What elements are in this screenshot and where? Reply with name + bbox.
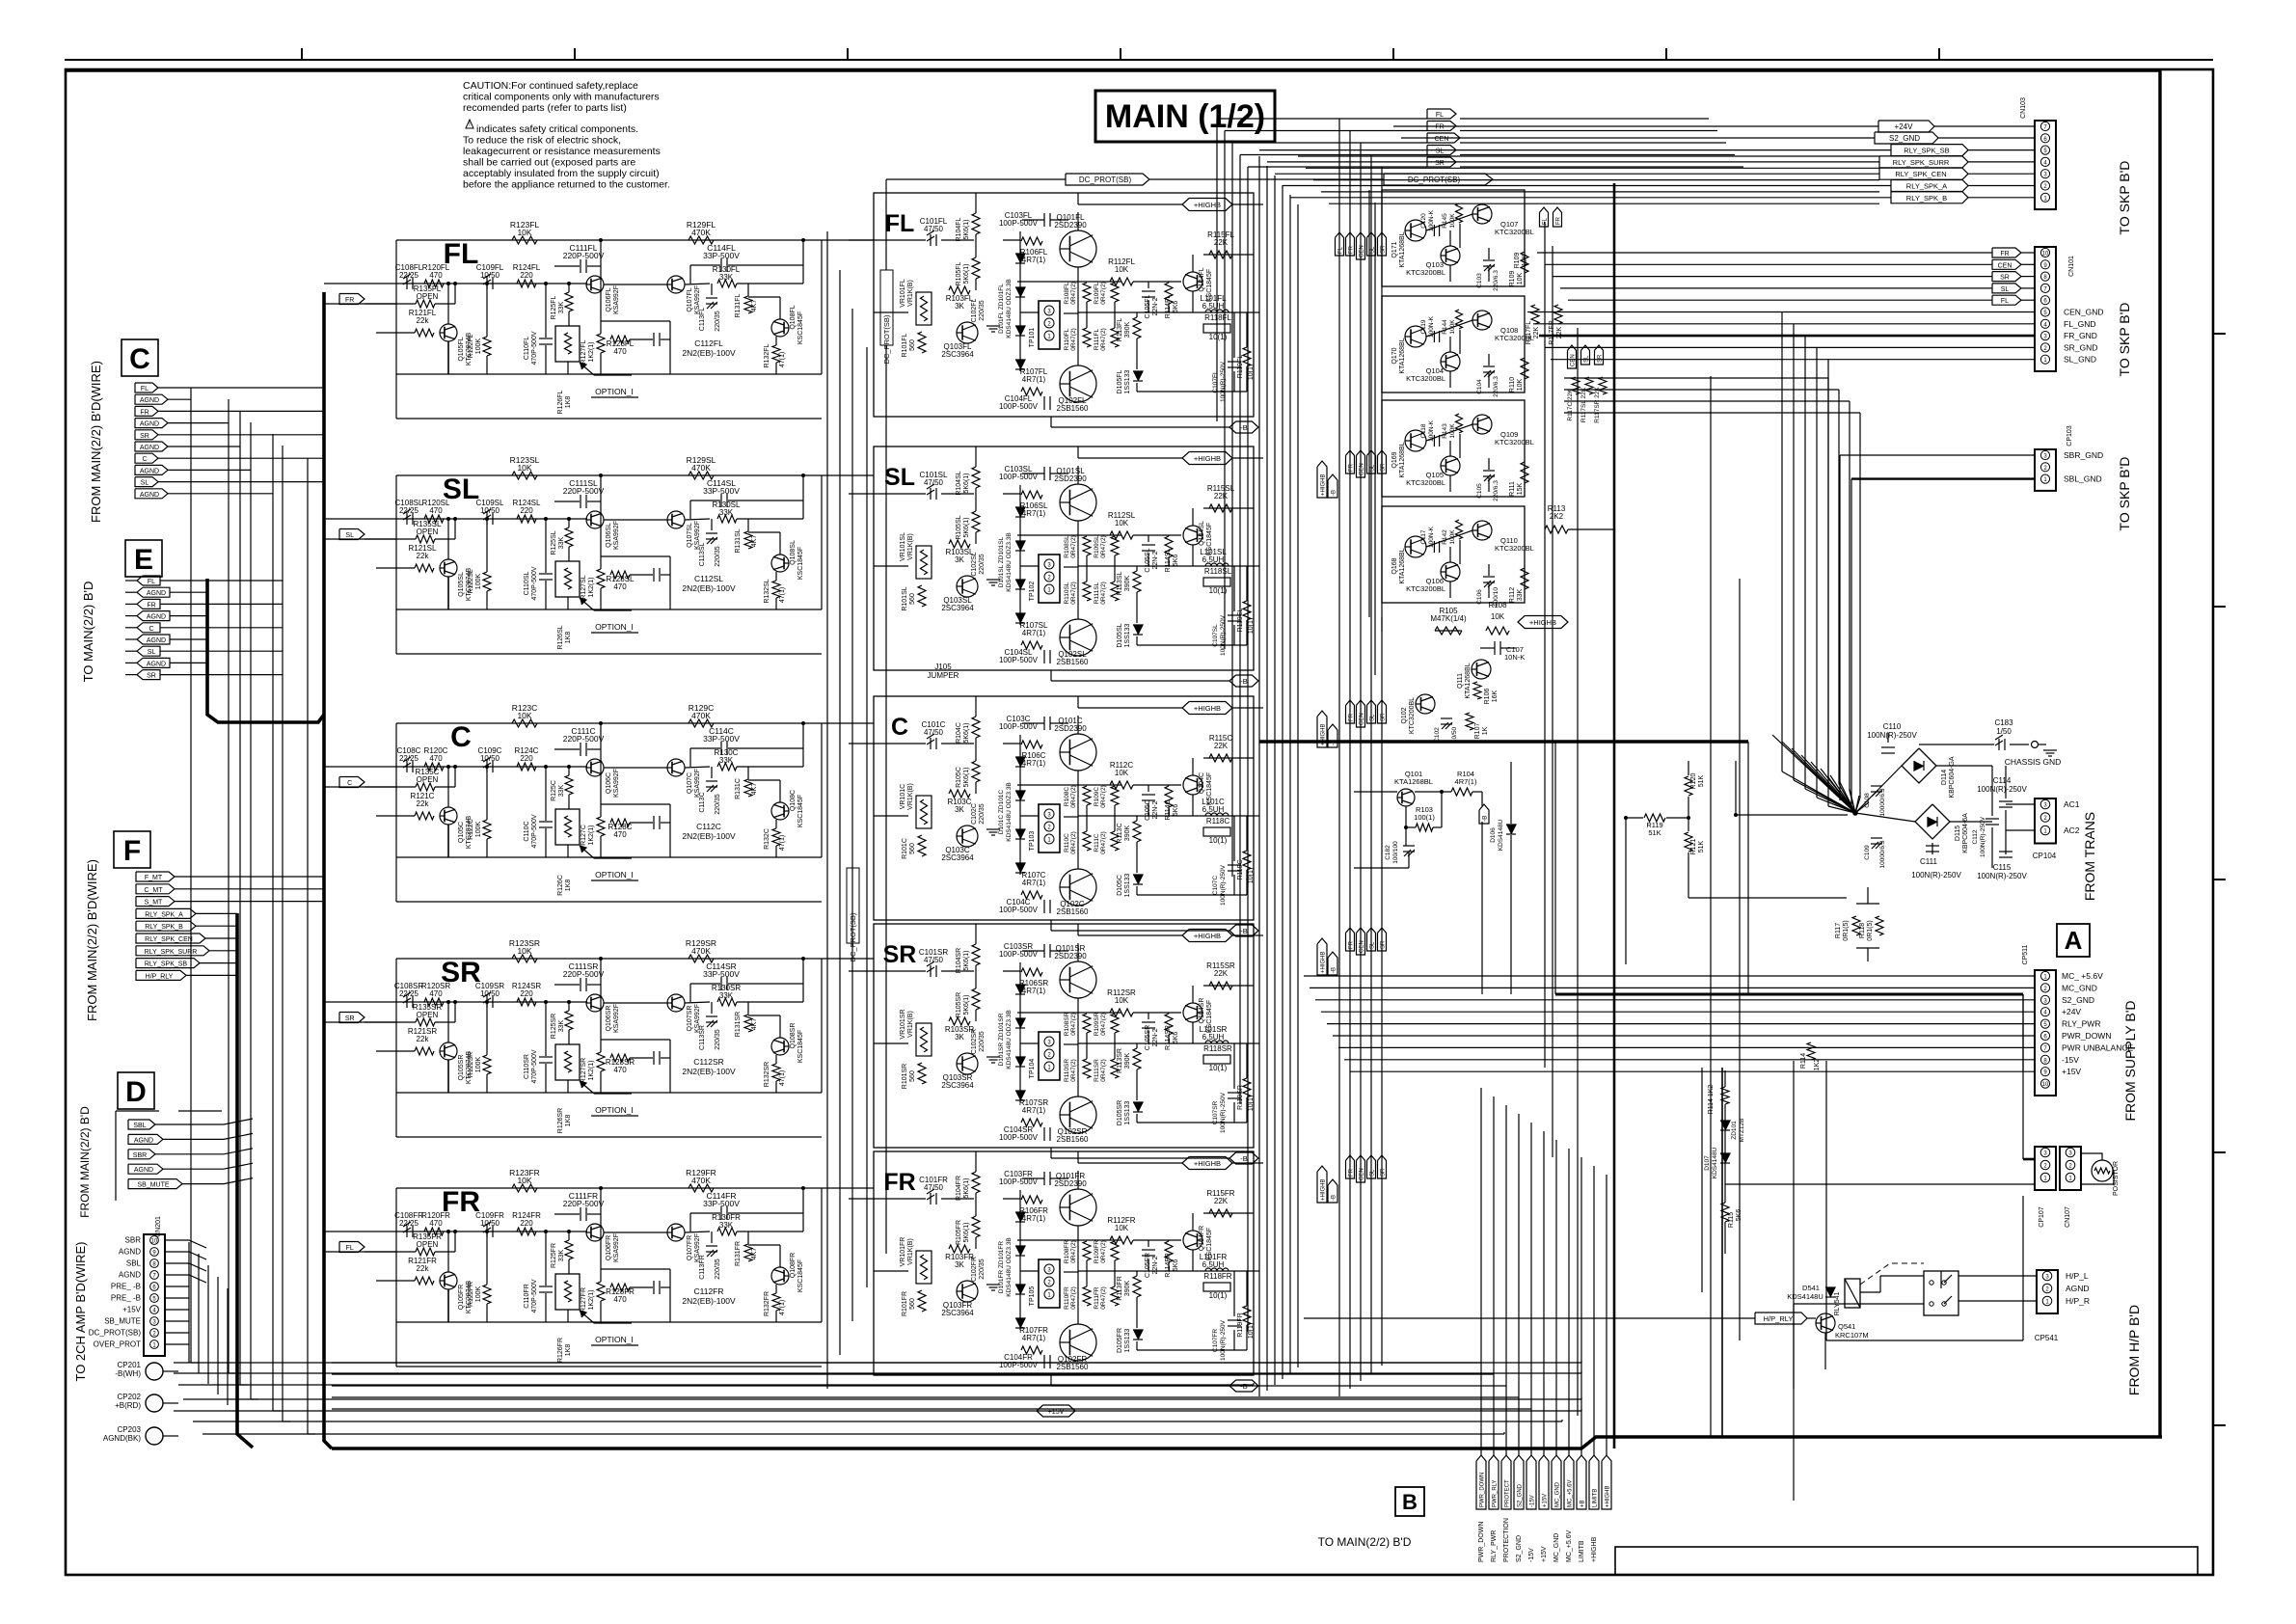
svg-text:220/35: 220/35 xyxy=(979,300,986,321)
svg-text:C113FR: C113FR xyxy=(699,1255,706,1280)
svg-text:AGND(BK): AGND(BK) xyxy=(103,1434,141,1443)
svg-text:C110C: C110C xyxy=(524,821,530,841)
svg-text:470: 470 xyxy=(429,271,443,280)
svg-text:100K: 100K xyxy=(475,822,482,838)
svg-text:0R47(2): 0R47(2) xyxy=(1100,1059,1107,1081)
svg-text:+15V: +15V xyxy=(1541,1546,1548,1562)
svg-text:AC1: AC1 xyxy=(2064,799,2080,809)
connector CP103 xyxy=(2035,449,2056,491)
svg-text:22N-2: 22N-2 xyxy=(1152,800,1159,819)
svg-text:C119: C119 xyxy=(1420,319,1427,334)
svg-text:100N(R)-250V: 100N(R)-250V xyxy=(1220,864,1227,906)
ruler tick top 2 xyxy=(574,48,576,60)
array bus verticals xyxy=(1368,190,1370,617)
terminal CP203 AGND(BK) xyxy=(146,1427,163,1445)
svg-text:-B: -B xyxy=(1332,967,1337,973)
wire left rail SR xyxy=(395,959,397,1093)
svg-text:Q541: Q541 xyxy=(1838,1322,1855,1331)
svg-text:H/P_RLY: H/P_RLY xyxy=(146,973,174,980)
svg-text:5K6(1): 5K6(1) xyxy=(963,263,970,284)
svg-text:FR: FR xyxy=(1349,1168,1355,1177)
transistor Q106FR KSA992F xyxy=(586,1224,604,1241)
transistor Q103FR 2SC3964 xyxy=(957,1281,978,1302)
capacitor C113C 220/35 xyxy=(706,780,717,782)
svg-text:OPTION_I: OPTION_I xyxy=(595,1335,634,1344)
svg-text:3: 3 xyxy=(2043,803,2047,809)
transistor Q168 KTA1268BL xyxy=(1405,536,1426,557)
heavy stub CP107 xyxy=(2023,1158,2035,1161)
svg-text:PWR_DOWN: PWR_DOWN xyxy=(1478,1522,1485,1562)
svg-text:560: 560 xyxy=(909,1070,916,1082)
svg-text:1K2(1): 1K2(1) xyxy=(588,577,595,597)
svg-text:KSC1845F: KSC1845F xyxy=(797,1030,804,1063)
svg-text:2N2(EB)-100V: 2N2(EB)-100V xyxy=(682,1296,736,1306)
svg-text:0R47(2): 0R47(2) xyxy=(1070,282,1077,304)
svg-text:KTC3200BL: KTC3200BL xyxy=(1495,544,1534,553)
wire CP511 RLY_PWR xyxy=(1327,1023,2035,1025)
svg-text:C182: C182 xyxy=(1385,845,1391,860)
svg-text:R107: R107 xyxy=(1474,723,1481,740)
svg-text:PRE_ -B: PRE_ -B xyxy=(111,1294,141,1303)
connector CP107 xyxy=(2035,1147,2056,1190)
wires to CP541 xyxy=(1958,1275,2037,1277)
wire FR q106-q107 xyxy=(604,1232,667,1233)
vertical tag row near FR block xyxy=(1346,1155,1355,1178)
transistor Q111 KTA1268BL xyxy=(1472,660,1491,679)
transistor Q107FL KSA992F xyxy=(667,276,685,293)
svg-text:FR: FR xyxy=(1349,940,1355,949)
svg-text:4R7(1): 4R7(1) xyxy=(1022,759,1046,768)
capacitor C129SL xyxy=(653,568,655,582)
transistor Q170 KTA1268BL xyxy=(1405,326,1426,347)
transistor Q169 KTA1268BL xyxy=(1405,430,1426,451)
svg-text:CEN: CEN xyxy=(1360,245,1365,257)
svg-text:CP541: CP541 xyxy=(2035,1334,2059,1342)
svg-text:AGND: AGND xyxy=(147,590,166,597)
svg-text:560: 560 xyxy=(909,593,916,605)
svg-text:FR_GND: FR_GND xyxy=(2064,331,2097,340)
svg-text:R125C: R125C xyxy=(551,780,557,801)
svg-text:F_MT: F_MT xyxy=(145,875,163,881)
svg-text:SR: SR xyxy=(140,433,149,440)
transistor Q105 KTC3200BL xyxy=(1441,456,1460,475)
wires to CP103 xyxy=(1840,454,2035,456)
svg-text:10K: 10K xyxy=(1115,1224,1129,1232)
svg-text:SL: SL xyxy=(1584,355,1590,363)
svg-text:Q105FL: Q105FL xyxy=(458,337,465,361)
ruler tick top 4 xyxy=(1120,48,1121,60)
svg-text:22k: 22k xyxy=(417,552,430,560)
svg-text:2: 2 xyxy=(1047,1053,1051,1059)
wires in group Q169 xyxy=(1426,424,1472,441)
svg-text:2SD2390: 2SD2390 xyxy=(1054,474,1087,483)
svg-text:VR1K(B): VR1K(B) xyxy=(907,280,914,307)
terminal CP202 +B(RD) xyxy=(146,1394,163,1412)
svg-text:470P-500V: 470P-500V xyxy=(531,1049,538,1083)
svg-text:R121: R121 xyxy=(1690,839,1697,855)
svg-text:4R7(1): 4R7(1) xyxy=(1022,1334,1046,1342)
svg-text:KSC1845F: KSC1845F xyxy=(797,1259,804,1292)
amp block outline FL xyxy=(874,193,1254,417)
svg-text:R115: R115 xyxy=(1728,1212,1735,1228)
svg-text:FL: FL xyxy=(885,210,915,237)
net tag +HIGHB C xyxy=(1182,702,1232,715)
svg-text:R118FL: R118FL xyxy=(1204,313,1231,322)
svg-text:R131SR: R131SR xyxy=(735,1012,742,1037)
svg-text:Q170: Q170 xyxy=(1391,347,1398,364)
svg-text:220: 220 xyxy=(520,506,533,515)
ruler tick top 6 xyxy=(1665,48,1667,60)
svg-text:Q108FR: Q108FR xyxy=(790,1253,797,1278)
transistor Q103FL 2SC3964 xyxy=(957,322,978,343)
svg-text:CN101: CN101 xyxy=(2068,256,2075,277)
svg-text:C113SL: C113SL xyxy=(699,543,706,567)
svg-text:PWR_RLY: PWR_RLY xyxy=(1493,1479,1499,1507)
channel source tag FL xyxy=(339,1242,365,1253)
svg-text:+15V: +15V xyxy=(1048,1409,1065,1416)
svg-text:RLY_SPK_SURR: RLY_SPK_SURR xyxy=(145,949,198,956)
svg-text:D105FL: D105FL xyxy=(1117,369,1123,393)
svg-text:VR101FL: VR101FL xyxy=(900,279,906,308)
svg-text:R142: R142 xyxy=(1442,529,1448,545)
svg-text:OPEN: OPEN xyxy=(417,292,439,301)
capacitor C129SR xyxy=(653,1051,655,1065)
svg-text:2SB1560: 2SB1560 xyxy=(1057,1363,1089,1371)
svg-text:RLY_SPK_SURR: RLY_SPK_SURR xyxy=(1893,158,1950,167)
wire SR q106-q107 xyxy=(604,1002,667,1004)
svg-text:R131FR: R131FR xyxy=(735,1241,742,1266)
svg-text:1SS133: 1SS133 xyxy=(1124,873,1131,897)
svg-text:R111FR: R111FR xyxy=(1094,1286,1100,1310)
wire C internal verticals xyxy=(447,767,449,807)
svg-text:PROTECT: PROTECT xyxy=(1505,1479,1511,1507)
svg-text:33K: 33K xyxy=(558,301,565,313)
svg-text:SR: SR xyxy=(883,941,917,968)
svg-text:R127SR: R127SR xyxy=(581,1058,587,1083)
svg-text:SR: SR xyxy=(147,673,156,680)
svg-text:R143: R143 xyxy=(1442,423,1448,439)
svg-text:10(1): 10(1) xyxy=(1248,365,1255,380)
svg-text:AGND: AGND xyxy=(119,1248,141,1257)
svg-text:KTA1268BL: KTA1268BL xyxy=(1465,663,1472,698)
wire input row C xyxy=(324,766,587,768)
connector tag RLY_SPK_A (group F) xyxy=(136,908,196,918)
svg-text:CP201: CP201 xyxy=(118,1361,142,1369)
svg-text:10(1): 10(1) xyxy=(1248,868,1255,883)
bridge diode D115 KBPC604-GA xyxy=(1915,804,1950,839)
connector tag FL (group E pin 1) xyxy=(137,576,160,585)
svg-text:4K7: 4K7 xyxy=(751,535,758,548)
svg-text:10: 10 xyxy=(151,1239,158,1245)
svg-text:3: 3 xyxy=(1047,310,1051,315)
wire from tag PROTECT xyxy=(1505,1105,1507,1455)
svg-text:+HIGHB: +HIGHB xyxy=(1321,474,1327,496)
option arrow OPTION_I SL xyxy=(580,598,594,610)
svg-text:6: 6 xyxy=(2043,137,2047,143)
svg-text:C117: C117 xyxy=(1420,529,1427,544)
svg-text:5K6: 5K6 xyxy=(1173,804,1179,817)
vertical tag -B near SL block xyxy=(1328,474,1337,498)
terminal CP201 -B(WH) xyxy=(146,1363,163,1380)
svg-text:TO SKP B'D: TO SKP B'D xyxy=(2117,457,2132,531)
test point TP101 xyxy=(1039,301,1060,349)
connector tag AGND (group D) xyxy=(128,1164,163,1174)
svg-text:-B: -B xyxy=(1332,490,1337,496)
svg-text:C102SR: C102SR xyxy=(971,1029,978,1054)
svg-text:VR1K(B): VR1K(B) xyxy=(907,1238,914,1265)
svg-text:R126FR: R126FR xyxy=(557,1338,564,1363)
wire C q106-q107 xyxy=(604,767,667,769)
wire left rail FL xyxy=(395,240,397,374)
group label C xyxy=(122,339,158,376)
svg-text:FR: FR xyxy=(345,297,354,304)
svg-text:47(1): 47(1) xyxy=(779,587,786,603)
svg-text:2: 2 xyxy=(1047,826,1051,831)
svg-text:R108FR: R108FR xyxy=(1064,1240,1070,1264)
svg-text:100N(R)-250V: 100N(R)-250V xyxy=(1977,785,2027,794)
svg-text:Q106C: Q106C xyxy=(606,772,612,794)
svg-text:47(1): 47(1) xyxy=(779,352,786,367)
svg-text:0R1(5): 0R1(5) xyxy=(1867,920,1874,940)
transistor Q107FR KSA992F xyxy=(667,1224,685,1241)
capacitor C102 10/50 xyxy=(1441,717,1452,719)
wire left rail SL xyxy=(395,475,397,609)
connector CP541 xyxy=(2037,1270,2058,1313)
svg-text:OPTION_I: OPTION_I xyxy=(595,387,634,396)
electrolytic capacitor C104 220/6.3 xyxy=(1483,365,1495,367)
net tag -B SR xyxy=(1229,1152,1258,1164)
svg-text:FR: FR xyxy=(1556,216,1562,225)
svg-text:C183: C183 xyxy=(1994,718,2013,727)
svg-text:4R7(1): 4R7(1) xyxy=(1022,375,1046,384)
heavy RLY bus vertical x=246 xyxy=(237,913,253,1448)
resistor R120 51K xyxy=(1685,776,1692,796)
svg-text:9: 9 xyxy=(2043,1070,2047,1076)
wire long horizontals lower mid xyxy=(332,1362,1481,1364)
svg-text:AGND: AGND xyxy=(147,614,166,621)
svg-text:1: 1 xyxy=(2045,1300,2049,1306)
svg-text:5K6(1): 5K6(1) xyxy=(963,517,970,537)
svg-text:100K: 100K xyxy=(475,1057,482,1073)
transistor Q105C KTC2874B xyxy=(440,807,457,825)
svg-text:R108FL: R108FL xyxy=(1064,282,1070,305)
driver group Q170 block xyxy=(1382,296,1525,392)
svg-text:VR1K(B): VR1K(B) xyxy=(907,1011,914,1038)
hex tag FL at CN101 xyxy=(1992,295,2021,305)
svg-text:1: 1 xyxy=(2043,1177,2047,1182)
transistor Q107C KSA992F xyxy=(667,759,685,776)
svg-text:3: 3 xyxy=(2043,998,2047,1004)
svg-text:TP102: TP102 xyxy=(1029,582,1036,602)
svg-text:R117SR 22K: R117SR 22K xyxy=(1594,387,1601,423)
svg-text:FL: FL xyxy=(148,579,155,585)
wire from tag PWR_DOWN xyxy=(1480,1088,1482,1455)
svg-text:220/35: 220/35 xyxy=(979,1259,986,1280)
svg-text:AC2: AC2 xyxy=(2064,826,2080,835)
svg-text:KTA1268BL: KTA1268BL xyxy=(1399,231,1406,267)
svg-text:SB_MUTE: SB_MUTE xyxy=(104,1317,141,1326)
svg-text:220/6.3: 220/6.3 xyxy=(1493,376,1499,397)
svg-text:SBR: SBR xyxy=(125,1236,142,1245)
svg-text:560: 560 xyxy=(909,843,916,854)
connector tag AGND (group E pin 4) xyxy=(137,611,170,621)
connector tag SR (group C pin 5) xyxy=(135,430,158,440)
svg-text:C: C xyxy=(450,721,472,753)
wire input row SL xyxy=(324,518,587,520)
svg-text:FR: FR xyxy=(2000,251,2009,257)
svg-text:C112SL: C112SL xyxy=(694,574,723,583)
svg-text:Q107FL: Q107FL xyxy=(687,287,693,311)
amp block outline SL xyxy=(874,447,1254,670)
net tag +HIGHB SL xyxy=(1182,452,1232,465)
svg-text:+HIGHB: +HIGHB xyxy=(1194,932,1221,940)
svg-text:47/50: 47/50 xyxy=(924,728,944,737)
svg-text:KDS4148U: KDS4148U xyxy=(1498,819,1504,851)
svg-text:FR: FR xyxy=(1349,463,1355,472)
svg-text:1: 1 xyxy=(2043,358,2047,364)
connector tag AGND (group D) xyxy=(128,1134,163,1144)
svg-text:+24V: +24V xyxy=(2062,1007,2081,1016)
svg-text:+HIGHB: +HIGHB xyxy=(1321,1178,1327,1201)
terminal wires CP20x xyxy=(163,1370,178,1372)
svg-text:AGND: AGND xyxy=(140,445,159,451)
svg-text:R113FL: R113FL xyxy=(1117,318,1123,341)
svg-text:KSA992F: KSA992F xyxy=(613,285,620,314)
svg-text:220/6.3: 220/6.3 xyxy=(1493,270,1499,291)
svg-text:2SB1560: 2SB1560 xyxy=(1057,658,1089,666)
svg-text:B: B xyxy=(1402,1490,1418,1514)
svg-text:0R47(2): 0R47(2) xyxy=(1070,582,1077,604)
svg-text:C: C xyxy=(149,626,153,633)
svg-text:0R47(2): 0R47(2) xyxy=(1070,1240,1077,1262)
svg-text:Q105SR: Q105SR xyxy=(458,1055,465,1081)
capacitor C129C xyxy=(653,816,655,829)
svg-text:Q106SR: Q106SR xyxy=(606,1006,612,1032)
test point TP105 xyxy=(1039,1259,1060,1308)
svg-text:Q106FL: Q106FL xyxy=(606,287,612,311)
svg-text:100P-500V: 100P-500V xyxy=(999,1361,1039,1369)
svg-text:R118SL: R118SL xyxy=(1204,567,1232,576)
net tag LIMITB (to main 2/2) xyxy=(1589,1455,1599,1509)
svg-text:CP202: CP202 xyxy=(118,1393,142,1401)
wire to CP107 xyxy=(1725,1183,2035,1185)
wires inside amp block SL xyxy=(975,447,977,467)
svg-text:RLY_SPK_CEN: RLY_SPK_CEN xyxy=(1895,170,1946,178)
svg-text:R104FL: R104FL xyxy=(956,217,962,241)
connector tag SBL (group D) xyxy=(128,1120,155,1129)
svg-text:R101FR: R101FR xyxy=(902,1291,908,1316)
svg-text:10: 10 xyxy=(2042,1082,2049,1088)
svg-text:+HIGHB: +HIGHB xyxy=(1606,1485,1611,1507)
CN201 wire drops xyxy=(188,1242,190,1363)
rotated net label DC_PROT(SB) lower xyxy=(847,868,859,943)
svg-text:CEN: CEN xyxy=(1998,262,2012,269)
wire CP511 S2_GND xyxy=(1315,999,2035,1001)
svg-text:3: 3 xyxy=(1047,813,1051,819)
net tag +HIGHB SR xyxy=(1182,930,1232,942)
svg-text:+HIGHB: +HIGHB xyxy=(1194,1159,1221,1168)
svg-text:R132SR: R132SR xyxy=(764,1062,770,1087)
net tag PROTECT (to main 2/2) xyxy=(1501,1455,1511,1509)
svg-text:TP104: TP104 xyxy=(1029,1059,1036,1079)
driver group Q169 block xyxy=(1382,400,1525,497)
svg-text:-15V: -15V xyxy=(1530,1495,1536,1507)
net tag PWR_RLY (to main 2/2) xyxy=(1489,1455,1499,1509)
wire SR_GND xyxy=(1545,346,2035,348)
svg-text:47/50: 47/50 xyxy=(924,478,944,487)
svg-text:recomended parts (refer to par: recomended parts (refer to parts list) xyxy=(463,102,627,114)
svg-text:C114: C114 xyxy=(1993,776,2012,785)
hex tag FR at CN101 xyxy=(1992,248,2021,257)
svg-text:220: 220 xyxy=(520,271,533,280)
svg-text:VR1K(B): VR1K(B) xyxy=(907,533,914,560)
svg-text:2: 2 xyxy=(2043,816,2047,822)
wires in group Q168 xyxy=(1426,530,1472,547)
svg-text:SB_MUTE: SB_MUTE xyxy=(137,1182,169,1189)
svg-text:SR: SR xyxy=(1381,940,1387,949)
transistor Q104C KSC1845F xyxy=(1183,775,1202,795)
svg-text:R126SR: R126SR xyxy=(557,1108,564,1133)
svg-text:220/35: 220/35 xyxy=(979,554,986,575)
svg-text:1K2(1): 1K2(1) xyxy=(588,1060,595,1080)
svg-text:390K: 390K xyxy=(1124,322,1131,338)
channel source tag SR xyxy=(339,1013,365,1023)
svg-text:R108: R108 xyxy=(1488,601,1507,609)
resistor R126SR 1K8 (option) xyxy=(555,1044,580,1080)
amp block outline C xyxy=(874,696,1254,920)
svg-text:SBR: SBR xyxy=(133,1152,147,1159)
svg-text:0R47(2): 0R47(2) xyxy=(1100,831,1107,853)
svg-text:2SD2390: 2SD2390 xyxy=(1054,221,1087,230)
wire bottom rail FL xyxy=(396,373,822,375)
svg-text:4: 4 xyxy=(2043,1011,2047,1016)
svg-text:PROTECTION: PROTECTION xyxy=(1503,1518,1510,1562)
svg-text:D101FR ZD101FR: D101FR ZD101FR xyxy=(998,1241,1005,1293)
svg-text:Q111: Q111 xyxy=(1457,673,1464,689)
svg-text:CP203: CP203 xyxy=(118,1425,142,1434)
svg-text:C110SL: C110SL xyxy=(524,572,530,596)
svg-text:220: 220 xyxy=(520,1219,533,1228)
svg-text:D105SR: D105SR xyxy=(1117,1100,1123,1125)
wire FL internal verticals xyxy=(447,284,449,324)
svg-text:R104SR: R104SR xyxy=(956,948,962,973)
svg-text:0R47(2): 0R47(2) xyxy=(1070,1286,1077,1309)
connector tag AGND (group C pin 6) xyxy=(135,442,168,451)
svg-text:2: 2 xyxy=(1047,322,1051,328)
svg-text:1: 1 xyxy=(1047,588,1051,594)
svg-text:10K: 10K xyxy=(517,463,531,473)
svg-text:RLY_SPK_B: RLY_SPK_B xyxy=(145,924,183,931)
svg-text:R113SL: R113SL xyxy=(1117,572,1123,596)
svg-text:2: 2 xyxy=(2043,987,2047,992)
svg-text:SR: SR xyxy=(1435,160,1445,167)
svg-text:R105C: R105C xyxy=(956,767,962,788)
svg-text:390K: 390K xyxy=(1124,826,1131,842)
svg-text:AGND: AGND xyxy=(134,1167,153,1174)
svg-text:1: 1 xyxy=(2043,477,2047,483)
svg-text:0R47(2): 0R47(2) xyxy=(1100,582,1107,604)
wire SL_GND xyxy=(1551,359,2035,361)
svg-text:4: 4 xyxy=(2043,322,2047,328)
svg-text:220P-500V: 220P-500V xyxy=(563,734,605,744)
net tag -B FR xyxy=(1229,1380,1258,1392)
svg-text:47(1): 47(1) xyxy=(779,1070,786,1086)
svg-text:R131C: R131C xyxy=(735,778,742,799)
rotated net label DC_PROT(SB) left xyxy=(880,270,893,345)
title box MAIN (1/2) xyxy=(1095,91,1275,142)
transistor Q106SR KSA992F xyxy=(586,994,604,1012)
test point TP102 xyxy=(1039,555,1060,603)
